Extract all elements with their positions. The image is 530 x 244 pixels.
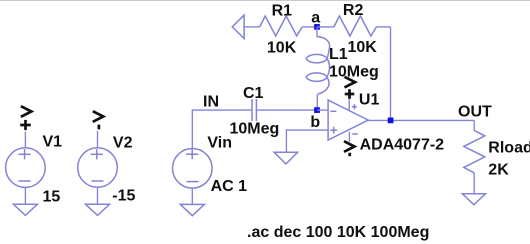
svg-text:Vin: Vin: [207, 134, 232, 151]
ground (rotated, left of R1): [232, 15, 244, 38]
svg-text:R1: R1: [272, 2, 293, 19]
wire op-amp output: [368, 119, 474, 121]
ground (Vin): [180, 204, 204, 215]
resistor R1: [260, 16, 303, 36]
wire C1 to node b: [256, 109, 317, 111]
wire V2 top stub: [97, 131, 99, 148]
wire V2 to ground: [97, 187, 99, 204]
svg-text:10Meg: 10Meg: [329, 64, 379, 81]
svg-text:a: a: [311, 9, 320, 26]
svg-text:U1: U1: [359, 92, 380, 109]
svg-text:R2: R2: [343, 2, 364, 19]
svg-text:10K: 10K: [267, 40, 297, 57]
wire op-amp V- stub: [348, 132, 350, 142]
ground (V2): [86, 204, 110, 215]
ground (Rload): [462, 194, 485, 205]
net label -V (V2, rotated): [93, 111, 104, 129]
wire node b to op-amp: [317, 109, 328, 111]
node out junction: [388, 118, 394, 124]
node a junction: [314, 24, 320, 30]
node b junction: [314, 107, 320, 113]
ground (V1): [13, 204, 37, 215]
svg-text:2K: 2K: [488, 162, 509, 179]
wire L1 to node b: [316, 94, 318, 110]
voltage source V2: [78, 148, 118, 188]
op-amp U1: [328, 100, 368, 140]
wire R1 to node a: [302, 26, 317, 28]
wire op-amp V+ stub: [348, 99, 350, 111]
svg-text:ADA4077-2: ADA4077-2: [360, 137, 445, 154]
svg-text:10Meg: 10Meg: [230, 120, 280, 137]
svg-text:.ac dec 100 10K 100Meg: .ac dec 100 10K 100Meg: [247, 224, 429, 241]
ground (op-amp +input): [274, 152, 298, 164]
wire node a to L1: [316, 27, 318, 37]
wire Vin to IN rail: [192, 110, 251, 148]
wire R2 to corner: [376, 26, 390, 28]
net label +V (V1, rotated): [20, 106, 31, 130]
svg-text:OUT: OUT: [458, 103, 492, 120]
svg-text:b: b: [310, 114, 320, 131]
svg-text:V2: V2: [113, 135, 133, 152]
wire +input to ground: [286, 130, 328, 152]
svg-text:V1: V1: [43, 134, 63, 151]
wire feedback vertical: [390, 27, 392, 121]
wire V1 top stub: [24, 132, 26, 148]
svg-text:10K: 10K: [348, 39, 378, 56]
voltage source V1: [6, 148, 46, 188]
net label -V (op-amp, rotated): [344, 141, 355, 156]
resistor R2: [334, 16, 377, 36]
wire node a to R2: [317, 26, 334, 28]
svg-text:IN: IN: [203, 93, 219, 110]
voltage source Vin: [173, 149, 213, 189]
net label +V (op-amp, rotated): [345, 77, 356, 99]
wire Vin to ground: [191, 188, 193, 204]
capacitor C1: [252, 99, 256, 121]
inductor L1: [306, 37, 330, 95]
svg-text:Rload: Rload: [488, 140, 530, 157]
wire ground to R1: [244, 26, 260, 28]
wire Rload to ground: [473, 173, 475, 194]
svg-text:15: 15: [43, 188, 61, 205]
svg-text:C1: C1: [243, 85, 264, 102]
top window edge line: [0, 0, 530, 2]
wire V1 to ground: [24, 187, 26, 204]
svg-text:L1: L1: [329, 46, 348, 63]
svg-text:-15: -15: [112, 187, 135, 204]
resistor Rload: [464, 130, 485, 173]
svg-text:AC 1: AC 1: [211, 178, 248, 195]
wire out corner down: [473, 120, 475, 130]
